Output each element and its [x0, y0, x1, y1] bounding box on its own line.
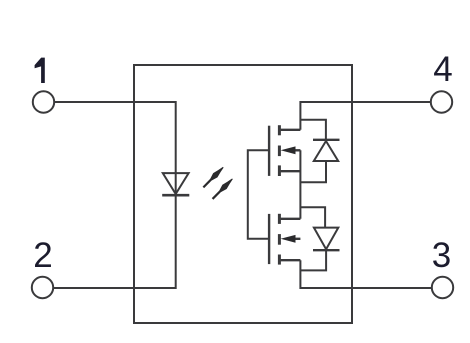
svg-text:2: 2 — [33, 236, 52, 275]
svg-text:3: 3 — [432, 236, 451, 275]
svg-text:4: 4 — [433, 50, 452, 89]
